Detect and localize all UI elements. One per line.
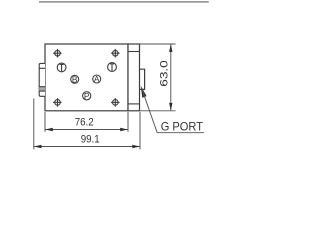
svg-text:A: A — [94, 74, 100, 84]
side view top step — [128, 51, 140, 53]
left gauge boss — [39, 63, 45, 96]
port P — [83, 91, 91, 101]
G PORT leader — [141, 86, 204, 133]
top crop line — [39, 1, 209, 3]
svg-text:G PORT: G PORT — [161, 119, 204, 133]
port A — [93, 74, 101, 84]
port B — [71, 74, 79, 84]
mounting hole bottom-left — [53, 98, 62, 107]
mounting hole top-right — [111, 49, 120, 58]
dimension 63.0 — [140, 44, 176, 111]
dimension 76.2 — [45, 112, 128, 132]
svg-text:P: P — [84, 91, 90, 101]
T port right — [108, 63, 117, 72]
side view bottom step — [128, 103, 140, 105]
svg-text:B: B — [72, 74, 78, 84]
T port left — [57, 63, 66, 72]
mounting hole top-left — [53, 49, 62, 58]
side view body — [128, 44, 140, 111]
dimension 99.1 — [34, 99, 140, 150]
G port boss on side view — [140, 69, 145, 89]
svg-text:99.1: 99.1 — [81, 133, 100, 145]
svg-text:76.2: 76.2 — [75, 117, 94, 129]
mounting hole bottom-right — [111, 98, 120, 107]
subplate front view outline — [45, 44, 128, 111]
svg-text:63.0: 63.0 — [158, 60, 170, 87]
